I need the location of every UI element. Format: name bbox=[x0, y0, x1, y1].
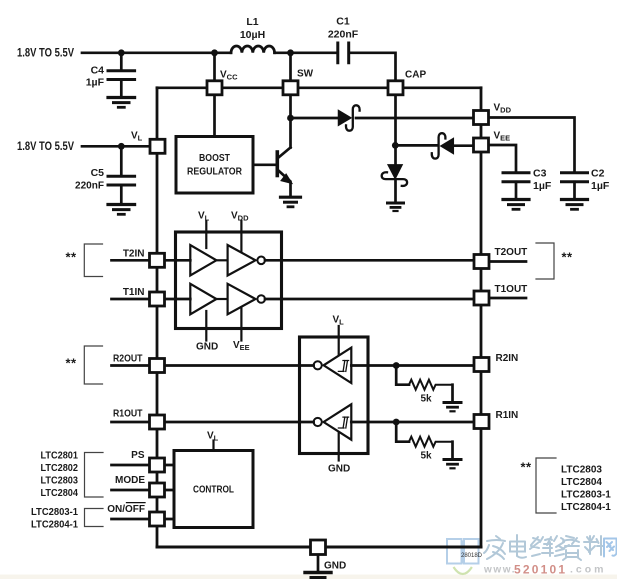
pin T2IN bbox=[150, 253, 165, 267]
wire VEE to C3 bbox=[490, 145, 517, 172]
pin GND bbox=[311, 540, 326, 555]
svg-text:REGULATOR: REGULATOR bbox=[187, 167, 243, 178]
pin PS bbox=[150, 458, 165, 472]
svg-text:LTC2804: LTC2804 bbox=[561, 477, 602, 488]
svg-text:R1IN: R1IN bbox=[496, 410, 519, 421]
label list LTC2803-1 LTC2804-1 bbox=[31, 507, 78, 531]
svg-text:220nF: 220nF bbox=[328, 29, 359, 41]
wire T1OUT line bbox=[265, 298, 473, 301]
pin T1IN bbox=[150, 292, 165, 306]
wire D1 to VDD pin bbox=[356, 117, 473, 120]
capacitor C2 bbox=[562, 168, 610, 199]
svg-text:LTC2801: LTC2801 bbox=[41, 451, 79, 462]
svg-text:www.: www. bbox=[483, 565, 516, 576]
diode D3 to ground bbox=[382, 165, 407, 202]
pin T2OUT bbox=[474, 255, 489, 269]
pin VCC bbox=[207, 70, 238, 95]
wire R1OUT line bbox=[112, 421, 314, 424]
svg-text:R1OUT: R1OUT bbox=[113, 409, 143, 420]
svg-text:T2OUT: T2OUT bbox=[495, 247, 528, 258]
driver T2 output stage bbox=[216, 245, 265, 276]
ground for C2 bbox=[562, 200, 588, 210]
node SW tap bbox=[287, 49, 294, 56]
block transmitter drivers bbox=[176, 232, 282, 329]
pin ON/OFF bbox=[150, 512, 165, 526]
svg-text:**: ** bbox=[521, 460, 532, 475]
capacitor C4 bbox=[86, 53, 135, 96]
wire T2IN input bbox=[112, 259, 191, 262]
svg-text:GND: GND bbox=[196, 342, 218, 353]
ground for D3 bbox=[388, 203, 404, 211]
svg-text:1µF: 1µF bbox=[533, 180, 552, 192]
wire VCC rail row bbox=[157, 86, 481, 89]
svg-text:CONTROL: CONTROL bbox=[193, 485, 234, 496]
svg-text:PS: PS bbox=[131, 450, 145, 461]
capacitor C5 bbox=[75, 146, 135, 203]
svg-text:C5: C5 bbox=[91, 167, 105, 179]
svg-text:**: ** bbox=[66, 356, 77, 371]
svg-text:BOOST: BOOST bbox=[199, 153, 230, 164]
svg-text:GND: GND bbox=[328, 464, 350, 475]
capacitor C1 bbox=[328, 16, 359, 63]
ground bottom bbox=[305, 556, 331, 578]
node R2 branch bbox=[393, 362, 400, 369]
node R1 branch bbox=[393, 419, 400, 426]
bracket T2OUT bbox=[536, 243, 554, 279]
pin MODE bbox=[150, 483, 165, 497]
wire ON/OFF input bbox=[112, 518, 175, 521]
transistor Q1 bbox=[277, 148, 291, 197]
svg-text:**: ** bbox=[562, 250, 573, 265]
svg-text:10µH: 10µH bbox=[240, 29, 265, 41]
wire VL input bbox=[82, 145, 149, 148]
svg-text:LTC2803-1: LTC2803-1 bbox=[561, 490, 611, 501]
wire GND stub receiver bbox=[338, 432, 340, 461]
bracket right list bbox=[536, 458, 556, 513]
pin R2IN bbox=[474, 358, 489, 372]
svg-text:T1IN: T1IN bbox=[123, 287, 145, 298]
svg-text:GND: GND bbox=[324, 561, 346, 572]
wire GND stub transmitter bbox=[205, 311, 207, 341]
svg-text:.com: .com bbox=[570, 564, 607, 576]
label list LTC2803 right bbox=[561, 465, 611, 514]
wire VDD stub transmitter bbox=[240, 221, 242, 252]
wire T2OUT stub bbox=[490, 260, 526, 263]
pin VL bbox=[131, 131, 165, 154]
svg-text:L1: L1 bbox=[246, 16, 258, 28]
wire left bus bbox=[156, 88, 159, 547]
wire VL stub transmitter bbox=[205, 221, 207, 248]
svg-text:5k: 5k bbox=[420, 394, 432, 405]
receiver R1 bbox=[314, 404, 352, 439]
wire T1IN input bbox=[112, 298, 191, 301]
pin VDD bbox=[474, 103, 512, 125]
node CAP-VEE junction bbox=[392, 142, 399, 149]
bracket T2IN bbox=[84, 244, 102, 277]
node C4 tap bbox=[118, 49, 125, 56]
ground for R1 resistor bbox=[444, 460, 461, 469]
wire R1IN line bbox=[351, 421, 472, 424]
wire boost output to Q1 base bbox=[253, 163, 276, 166]
svg-text:C3: C3 bbox=[533, 168, 547, 180]
wire T2OUT line bbox=[265, 259, 473, 262]
pin R2OUT bbox=[150, 359, 165, 373]
svg-text:C2: C2 bbox=[591, 168, 605, 180]
bracket LTC2803-1 list bbox=[85, 509, 104, 527]
wire bottom rail bbox=[157, 546, 481, 549]
svg-text:1µF: 1µF bbox=[86, 77, 105, 89]
ground for C4 bbox=[108, 98, 135, 108]
svg-text:1.8V TO 5.5V: 1.8V TO 5.5V bbox=[17, 141, 74, 153]
diode D2 bbox=[432, 133, 454, 158]
wire R2OUT line bbox=[112, 364, 314, 367]
svg-text:CAP: CAP bbox=[405, 70, 426, 81]
svg-text:LTC2803: LTC2803 bbox=[561, 465, 602, 476]
svg-text:LTC2804-1: LTC2804-1 bbox=[561, 502, 611, 513]
bracket R2OUT bbox=[84, 346, 102, 384]
wire VEE line left segment bbox=[395, 144, 437, 147]
watermark url bbox=[483, 563, 607, 577]
svg-text:LTC2802: LTC2802 bbox=[41, 463, 79, 474]
svg-text:1.8V TO 5.5V: 1.8V TO 5.5V bbox=[17, 48, 74, 60]
pin R1OUT bbox=[150, 415, 165, 429]
ground for C3 bbox=[503, 200, 529, 210]
svg-text:LTC2804: LTC2804 bbox=[41, 488, 79, 499]
driver T2 input buffer bbox=[190, 245, 216, 276]
wire right bus bbox=[480, 88, 483, 547]
svg-text:LTC2804-1: LTC2804-1 bbox=[31, 520, 78, 531]
resistor R2 5k bbox=[396, 366, 452, 405]
svg-text:R2IN: R2IN bbox=[496, 353, 519, 364]
wire VDD to C2 bbox=[490, 118, 575, 172]
block boost regulator U1 bbox=[176, 137, 253, 194]
svg-text:T2IN: T2IN bbox=[123, 249, 145, 260]
wire T1OUT stub bbox=[490, 297, 526, 300]
svg-text:ON/OFF: ON/OFF bbox=[107, 504, 145, 515]
driver T1 output stage bbox=[216, 284, 265, 315]
pin T1OUT bbox=[474, 291, 489, 305]
svg-text:R2OUT: R2OUT bbox=[113, 354, 143, 365]
block receivers bbox=[300, 337, 369, 454]
svg-text:28018D: 28018D bbox=[461, 553, 483, 559]
diode D1 bbox=[339, 105, 360, 130]
svg-text:C1: C1 bbox=[336, 16, 350, 28]
receiver R2 bbox=[314, 348, 352, 383]
label ON/OFF bbox=[107, 503, 145, 515]
wire MODE input bbox=[112, 489, 175, 492]
bracket LTC2801 list bbox=[85, 453, 104, 498]
pin CAP bbox=[388, 70, 426, 95]
wire node to diode D1 bbox=[291, 117, 338, 120]
block control bbox=[174, 451, 253, 528]
svg-text:T1OUT: T1OUT bbox=[495, 284, 528, 295]
label list LTC2801-LTC2804 bbox=[41, 451, 79, 500]
svg-text:LTC2803-1: LTC2803-1 bbox=[31, 507, 78, 518]
bottom strip bbox=[0, 575, 617, 579]
ground for R2 resistor bbox=[444, 403, 461, 412]
svg-text:220nF: 220nF bbox=[75, 180, 105, 192]
wire R2IN line bbox=[351, 364, 472, 367]
wire SW pin to collector bbox=[289, 96, 292, 148]
svg-text:**: ** bbox=[66, 250, 77, 265]
svg-text:LTC2803: LTC2803 bbox=[41, 476, 79, 487]
wire VL stub control bbox=[212, 441, 214, 451]
pin VEE bbox=[474, 131, 511, 153]
resistor R1 5k bbox=[396, 422, 452, 462]
wire PS input bbox=[112, 464, 175, 467]
node C5 tap bbox=[118, 143, 125, 150]
svg-text:520101: 520101 bbox=[514, 563, 567, 577]
node VCC tap bbox=[211, 49, 218, 56]
wire top supply rail bbox=[82, 53, 396, 80]
wire VEE stub transmitter bbox=[240, 307, 242, 341]
watermark chinese text bbox=[484, 535, 617, 560]
driver T1 input buffer bbox=[190, 284, 216, 315]
pin R1IN bbox=[474, 415, 489, 429]
ground for Q1 emitter bbox=[281, 197, 301, 207]
watermark logo book bbox=[447, 539, 479, 574]
node collector-diode junction bbox=[287, 115, 294, 122]
svg-text:C4: C4 bbox=[91, 65, 105, 77]
svg-text:5k: 5k bbox=[420, 451, 432, 462]
svg-text:SW: SW bbox=[297, 69, 314, 80]
wire CAP pin down to D3 bbox=[394, 96, 397, 165]
inductor L1 bbox=[231, 16, 275, 53]
svg-text:1µF: 1µF bbox=[591, 180, 610, 192]
ground for C5 bbox=[108, 205, 135, 215]
wire VL stub receiver bbox=[338, 326, 340, 356]
wire D2 to VEE pin bbox=[453, 144, 472, 147]
svg-text:MODE: MODE bbox=[115, 475, 145, 486]
wire VCC pin to boost regulator bbox=[213, 96, 216, 137]
capacitor C3 bbox=[503, 168, 552, 199]
pin SW bbox=[283, 69, 314, 95]
